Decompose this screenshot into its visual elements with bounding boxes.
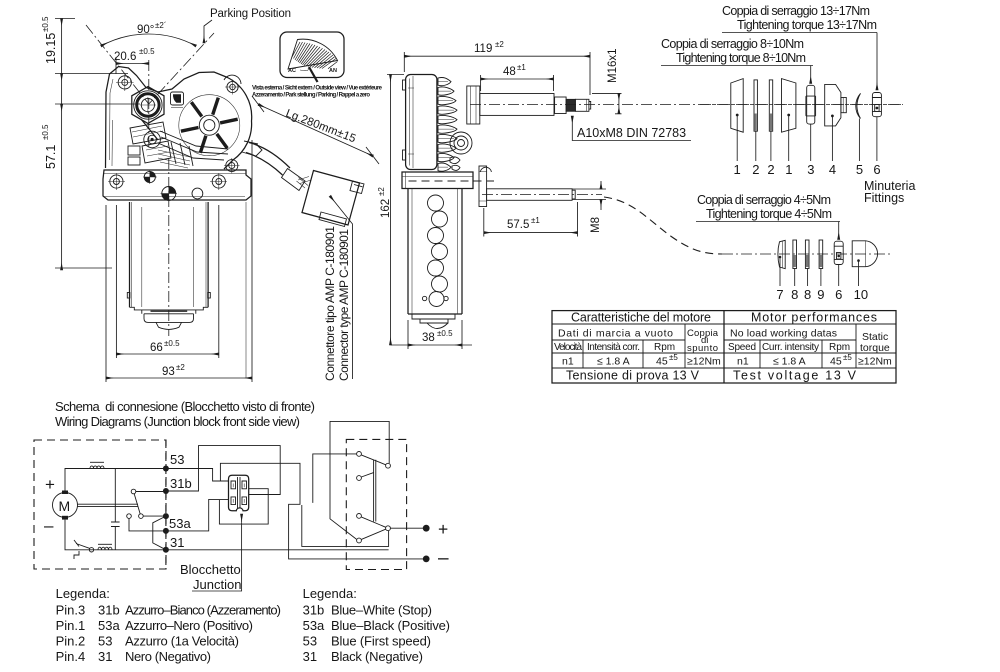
svg-text:Wiring Diagrams (Junction bloc: Wiring Diagrams (Junction block front si… [55, 414, 300, 429]
part 6 nut lower [834, 241, 843, 264]
svg-text:53a: 53a [98, 618, 120, 633]
part leaders upper [736, 115, 738, 161]
cable exit boss [242, 141, 262, 156]
dim 19.15 and 57.1 vertical line [61, 19, 63, 271]
numbers lower [776, 287, 868, 302]
svg-text:±2: ±2 [377, 187, 386, 196]
dim 20.6 [116, 63, 149, 65]
body cap side [412, 314, 455, 323]
blade c1-c2 [361, 455, 386, 465]
CABLE AND CONNECTOR [246, 96, 379, 381]
wiper sweep sector [288, 39, 338, 69]
svg-text:45: 45 [830, 356, 842, 368]
horizontal rules [552, 324, 896, 368]
svg-text:Azzurro (1a Velocità): Azzurro (1a Velocità) [125, 634, 239, 649]
wire below block box [219, 489, 268, 524]
output gear star wheel [179, 95, 240, 156]
part leaders lower [779, 257, 781, 286]
svg-text:≤ 1.8 A: ≤ 1.8 A [773, 356, 806, 368]
block key slot [238, 477, 241, 508]
svg-text:Speed: Speed [728, 342, 756, 353]
svg-text:±2: ±2 [495, 40, 504, 49]
bypass wire mid to 31 [153, 516, 166, 550]
motor body front [130, 202, 209, 307]
dim 48 [481, 78, 554, 80]
dim 119 [404, 55, 590, 57]
wire motor bottom to 31 [65, 520, 163, 550]
svg-text:9: 9 [817, 287, 824, 302]
svg-text:M8: M8 [590, 217, 602, 233]
part 5 spring washer [856, 93, 861, 118]
connector comb fingers [158, 150, 190, 168]
svg-text:Junction: Junction [193, 577, 241, 592]
svg-text:AC: AC [288, 68, 296, 74]
svg-text:Pin.2: Pin.2 [56, 634, 86, 649]
svg-text:93: 93 [162, 366, 175, 378]
dim 38 [391, 344, 473, 346]
shaft tip [575, 99, 589, 111]
svg-text:No load working datas: No load working datas [730, 328, 837, 340]
switch box solid [330, 421, 389, 539]
svg-text:Legenda:: Legenda: [56, 586, 110, 601]
svg-text:1: 1 [734, 162, 741, 177]
switch blade [134, 494, 140, 514]
wire plus feed [302, 505, 389, 546]
90 degree arc [101, 34, 196, 46]
contact c5 [386, 526, 391, 531]
table frame [552, 311, 896, 383]
armature double line [78, 504, 139, 506]
terminal block cluster [130, 122, 166, 144]
WIRING DIAGRAM [34, 399, 449, 592]
svg-text:±0.5: ±0.5 [437, 329, 453, 338]
capacitor branch [114, 469, 116, 550]
svg-text:3: 3 [807, 162, 814, 177]
connector AMP body [302, 171, 360, 226]
Lg.280 dimension [259, 105, 374, 157]
hex boss U-joint [132, 87, 164, 124]
svg-text:Motor performances: Motor performances [751, 311, 877, 325]
svg-text:+: + [438, 519, 448, 539]
svg-text:31: 31 [98, 649, 112, 664]
extension lines left [55, 19, 140, 269]
svg-text:≤ 1.8 A: ≤ 1.8 A [597, 356, 630, 368]
svg-text:Velocità: Velocità [554, 342, 582, 353]
junction dots [163, 466, 169, 472]
contact c4 [357, 514, 362, 519]
block pins [231, 481, 247, 505]
svg-text:Test voltage 13 V: Test voltage 13 V [733, 369, 857, 383]
park switch contact C [127, 514, 132, 519]
PARKING INSET [252, 32, 383, 99]
svg-text:Azzurro–Nero (Positivo): Azzurro–Nero (Positivo) [125, 618, 253, 633]
svg-text:torque: torque [860, 342, 890, 354]
svg-text:Pin.4: Pin.4 [56, 649, 86, 664]
svg-text:6: 6 [873, 162, 880, 177]
part 8 washer b [805, 240, 809, 269]
gearbox housing side [406, 75, 437, 170]
svg-text:Pin.1: Pin.1 [56, 618, 86, 633]
svg-text:31: 31 [303, 649, 317, 664]
thermal contact [89, 548, 93, 552]
park arm mark [309, 67, 318, 82]
wire B to mid junction [143, 515, 163, 517]
svg-text:53: 53 [98, 634, 112, 649]
svg-text:–: – [438, 548, 449, 569]
numbers upper [734, 162, 881, 177]
wire 31 long [166, 549, 389, 551]
svg-text:53a: 53a [169, 516, 191, 531]
svg-text:Rpm: Rpm [829, 342, 850, 353]
lower centerline [722, 253, 893, 255]
body centerline [168, 158, 170, 336]
bolt boss top-left [118, 76, 131, 89]
svg-text:Azzeramento / Park stellung /: Azzeramento / Park stellung / Parking / … [252, 93, 370, 99]
svg-text:Caratteristiche del motore: Caratteristiche del motore [571, 311, 711, 325]
contact bar double [374, 460, 376, 522]
svg-text:Pin.3: Pin.3 [56, 603, 86, 618]
body side tabs [127, 293, 130, 299]
bolt boss right-lower [226, 160, 238, 172]
svg-text:±2´: ±2´ [155, 21, 167, 30]
plate hole center-top [144, 171, 155, 182]
svg-text:Intensità corr.: Intensità corr. [587, 342, 640, 353]
cooling teeth [438, 77, 457, 171]
svg-text:53a: 53a [303, 618, 325, 633]
svg-text:±5: ±5 [669, 353, 678, 362]
svg-text:53: 53 [303, 634, 317, 649]
upper centerline [700, 104, 903, 106]
shaft step [555, 97, 567, 114]
svg-text:8: 8 [804, 287, 811, 302]
wire motor top to 53 [65, 469, 163, 491]
strap wavy chain [428, 195, 448, 307]
svg-text:Coppia di serraggio 4÷5Nm: Coppia di serraggio 4÷5Nm [697, 193, 831, 207]
inset frame [280, 32, 344, 78]
dim 57.5 [484, 232, 578, 234]
svg-text:n1: n1 [737, 356, 749, 368]
svg-text:66: 66 [150, 342, 163, 354]
part 1 right seal [782, 79, 796, 133]
svg-text:31b: 31b [170, 476, 192, 491]
part 4 cone [825, 84, 841, 126]
part 1 left seal [731, 79, 743, 133]
svg-text:≥12Nm: ≥12Nm [858, 356, 892, 368]
LEGENDS [56, 586, 450, 664]
worm gear circles [450, 132, 472, 154]
svg-text:31: 31 [170, 535, 184, 550]
svg-text:+: + [45, 475, 55, 494]
connector latch bottom [319, 212, 347, 227]
svg-text:±0.5: ±0.5 [41, 124, 50, 140]
svg-text:57.5: 57.5 [507, 219, 529, 231]
wiper pivot pin [487, 189, 572, 201]
svg-text:AN: AN [329, 68, 337, 74]
svg-text:Azzurro–Bianco (Azzeramento): Azzurro–Bianco (Azzeramento) [125, 603, 281, 618]
motor block dashed border [34, 440, 166, 569]
svg-text:±0.5: ±0.5 [164, 339, 180, 348]
svg-text:4: 4 [829, 162, 836, 177]
svg-text:90°: 90° [137, 24, 154, 36]
svg-text:31b: 31b [303, 603, 325, 618]
svg-text:±5: ±5 [843, 353, 852, 362]
svg-text:Tightening torque 13÷17Nm: Tightening torque 13÷17Nm [737, 18, 877, 32]
svg-text:Blue (First speed): Blue (First speed) [331, 634, 431, 649]
wire 53 to junction block [166, 469, 229, 482]
plus terminal [390, 527, 423, 529]
svg-text:A10xM8 DIN 72783: A10xM8 DIN 72783 [577, 126, 686, 140]
svg-text:≥12Nm: ≥12Nm [687, 356, 721, 368]
svg-text:119: 119 [474, 43, 492, 55]
housing inner wall [110, 79, 114, 166]
svg-text:8: 8 [791, 287, 798, 302]
svg-text:Tightening torque 4÷5Nm: Tightening torque 4÷5Nm [706, 207, 832, 221]
svg-text:Rpm: Rpm [654, 342, 675, 353]
dim 93 [106, 140, 252, 382]
thread band [566, 99, 575, 111]
svg-text:Lg.280mm±15: Lg.280mm±15 [284, 108, 357, 146]
part 10 cap [852, 241, 877, 267]
svg-text:162: 162 [380, 199, 392, 218]
gearbox housing outline [106, 67, 252, 170]
svg-text:Blue–White (Stop): Blue–White (Stop) [331, 603, 432, 618]
part 8 washer a [793, 240, 797, 269]
contact c3 [357, 476, 362, 481]
svg-text:Vista esterna / Sicht extern /: Vista esterna / Sicht extern / Outside v… [252, 86, 383, 92]
junction vertical dashed [165, 440, 167, 569]
connector latch right [350, 181, 364, 194]
svg-text:Legenda:: Legenda: [303, 586, 357, 601]
svg-text:57.1: 57.1 [44, 145, 58, 169]
block arrow leader [241, 514, 243, 523]
dim 162 [390, 75, 392, 346]
svg-text:Nero (Negativo): Nero (Negativo) [125, 649, 211, 664]
c3 spur [361, 473, 373, 477]
svg-text:Tightening torque 8÷10Nm: Tightening torque 8÷10Nm [676, 51, 806, 65]
svg-text:Tensione di prova 13 V: Tensione di prova 13 V [566, 369, 700, 383]
shaft flange [467, 86, 480, 124]
part 6 nut [872, 93, 881, 117]
part 2 washer a [754, 80, 757, 131]
FRONT VIEW [103, 67, 262, 379]
svg-text:1: 1 [785, 162, 792, 177]
main centerline [470, 104, 903, 106]
wire C down to 53a [129, 518, 163, 531]
junction block AMP [229, 475, 249, 510]
park switch contact A [131, 489, 136, 494]
wire c1 left [313, 454, 357, 503]
svg-text:Dati di marcia a vuoto: Dati di marcia a vuoto [558, 328, 673, 340]
contact c2 [386, 463, 391, 468]
svg-text:53: 53 [170, 452, 184, 467]
cam boss [144, 131, 161, 148]
FITTINGS [661, 4, 915, 302]
vertical rules [583, 311, 856, 383]
TABLE [552, 311, 896, 384]
wire 53a to block [166, 499, 229, 531]
svg-text:Coppia di serraggio 8÷10Nm: Coppia di serraggio 8÷10Nm [661, 37, 804, 51]
svg-text:spunto: spunto [687, 343, 718, 354]
bolt boss top-right [227, 81, 238, 92]
part 2 washer b [769, 80, 772, 131]
crank levers [158, 131, 228, 160]
plate hole right [212, 175, 225, 188]
svg-text:7: 7 [776, 287, 783, 302]
contact c1 [357, 452, 362, 457]
svg-text:Fittings: Fittings [864, 191, 904, 205]
M16x1 leader [592, 93, 622, 113]
svg-text:6: 6 [835, 287, 842, 302]
motor body side [408, 189, 462, 315]
cable harness [249, 143, 290, 169]
svg-text:45: 45 [656, 356, 668, 368]
part 9 washer [819, 240, 823, 269]
svg-text:±1: ±1 [517, 63, 526, 72]
plate hole left [110, 175, 123, 188]
svg-text:±0.5: ±0.5 [139, 47, 155, 56]
svg-text:Blue–Black (Positive): Blue–Black (Positive) [331, 618, 450, 633]
pivot flange washer [479, 166, 487, 207]
svg-text:5: 5 [856, 162, 863, 177]
svg-text:19.15: 19.15 [44, 33, 58, 64]
mounting bracket [402, 172, 473, 189]
svg-text:31b: 31b [98, 603, 120, 618]
parking rays dash-dot [86, 25, 214, 104]
svg-text:Curr. intensity: Curr. intensity [762, 342, 819, 353]
wires to connector [297, 177, 312, 189]
svg-text:Blocchetto: Blocchetto [180, 562, 241, 577]
contact c6 [357, 538, 362, 543]
minus terminal [423, 556, 430, 563]
wire block right to minus [220, 463, 423, 559]
park switch contact B [139, 514, 144, 519]
blade c4-c5 [361, 517, 386, 527]
blade c6-c5 [361, 529, 385, 539]
svg-text:10: 10 [854, 287, 868, 302]
svg-text:±0.5: ±0.5 [41, 16, 50, 32]
svg-text:n1: n1 [562, 356, 574, 368]
svg-text:38: 38 [422, 332, 435, 344]
svg-text:48: 48 [503, 66, 516, 78]
svg-text:Connector type AMP C-180901: Connector type AMP C-180901 [337, 229, 351, 381]
part 7 seal [778, 240, 785, 268]
svg-text:M: M [59, 498, 71, 514]
svg-text:Parking Position: Parking Position [210, 8, 291, 20]
svg-text:Coppia di serraggio 13÷17Nm: Coppia di serraggio 13÷17Nm [722, 4, 870, 18]
inductor top [90, 461, 104, 463]
hex centerline [148, 60, 150, 150]
svg-text:±2: ±2 [176, 363, 185, 372]
mounting plate [103, 170, 251, 200]
motor M [53, 493, 78, 518]
FRONT DIMENSIONS [41, 8, 291, 382]
SIDE VIEW [377, 40, 903, 349]
svg-text:2: 2 [767, 162, 774, 177]
leader into connector [330, 196, 353, 379]
dim 66 [116, 205, 218, 358]
svg-text:20.6: 20.6 [114, 51, 136, 63]
body bottom cap [130, 307, 209, 314]
svg-text:Connettore tipo AMP C-180901: Connettore tipo AMP C-180901 [323, 226, 337, 381]
main shaft 48mm [480, 94, 554, 116]
part 3 spacer nut [807, 85, 815, 124]
crimp sleeve [282, 169, 306, 191]
svg-text:±1: ±1 [531, 216, 540, 225]
svg-text:Schema di connesione (Blocche: Schema di connesione (Blocchetto visto d… [55, 399, 315, 414]
wire A to 31b [136, 491, 163, 493]
inductor bottom [98, 543, 112, 545]
wire 31b loop over block [166, 446, 280, 495]
plate hole center-bottom [162, 187, 176, 201]
switch dashed border [346, 439, 406, 569]
svg-text:Black (Negative): Black (Negative) [331, 649, 423, 664]
M8 dim [600, 181, 602, 189]
dashed link to lower fittings [604, 197, 722, 254]
svg-text:M16x1: M16x1 [607, 48, 619, 83]
svg-text:2: 2 [752, 162, 759, 177]
plate hole small right [192, 188, 203, 199]
logo plate [171, 92, 184, 105]
svg-text:–: – [44, 516, 54, 535]
